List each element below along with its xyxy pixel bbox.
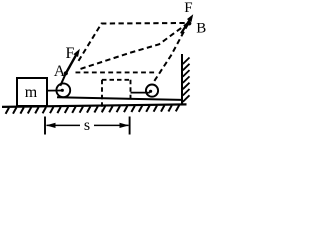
svg-text:m: m	[25, 84, 38, 101]
svg-text:F: F	[66, 45, 75, 62]
svg-text:s: s	[84, 117, 90, 134]
svg-text:A: A	[54, 63, 66, 80]
svg-text:F: F	[184, 0, 192, 16]
svg-text:B: B	[196, 21, 206, 37]
